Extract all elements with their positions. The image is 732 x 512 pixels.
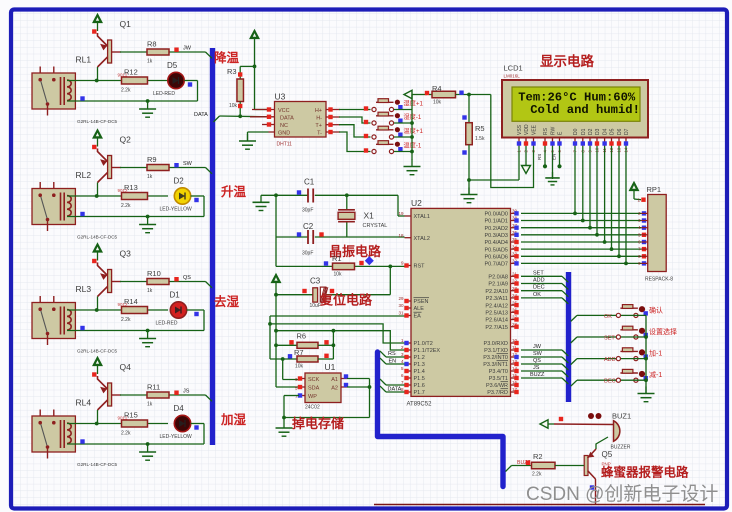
svg-text:ADD: ADD xyxy=(533,278,545,284)
svg-text:P3.7/RD: P3.7/RD xyxy=(487,390,508,396)
svg-text:VEE: VEE xyxy=(532,124,538,135)
svg-text:2.2k: 2.2k xyxy=(532,472,542,478)
svg-text:去湿: 去湿 xyxy=(214,294,240,309)
resistor R10 1k xyxy=(147,269,169,294)
svg-text:XTAL2: XTAL2 xyxy=(414,236,430,242)
transistor Q2 PNP 9012 xyxy=(98,135,132,197)
wire button 2 to rail xyxy=(394,121,414,125)
svg-text:设置选择: 设置选择 xyxy=(649,327,677,336)
power +5V arrow (U3 VCC rail) xyxy=(250,30,259,47)
LCD text line 2 xyxy=(530,103,640,117)
svg-text:D2: D2 xyxy=(174,177,185,186)
svg-text:T-: T- xyxy=(317,131,322,137)
push button 加-1 (ADD) xyxy=(616,348,662,361)
power +5V arrow (RP1) xyxy=(630,182,642,200)
resistor R8 1k xyxy=(147,40,169,65)
svg-text:升温: 升温 xyxy=(221,184,247,199)
capacitor C3 10uF electrolytic xyxy=(302,277,334,310)
svg-text:加湿: 加湿 xyxy=(220,412,247,427)
capacitor C2 30pF xyxy=(297,222,324,257)
label 升温 xyxy=(221,184,247,199)
svg-text:P2.2/A10: P2.2/A10 xyxy=(485,289,508,295)
ground (relay block RL4) xyxy=(139,445,156,460)
svg-text:DHT11: DHT11 xyxy=(277,142,293,148)
svg-text:24C02: 24C02 xyxy=(305,405,320,411)
wire SET (P2.0) to bus xyxy=(521,270,568,282)
svg-text:ALE: ALE xyxy=(414,306,425,312)
svg-text:P3.4/T0: P3.4/T0 xyxy=(489,369,508,375)
svg-text:CSDN @创新电子设计: CSDN @创新电子设计 xyxy=(526,483,718,505)
svg-text:P1.5: P1.5 xyxy=(414,376,425,382)
svg-text:P3.5/T1: P3.5/T1 xyxy=(489,376,508,382)
power +5V arrow (Q2 emitter) xyxy=(92,130,102,150)
wire DATA from bus to U3 xyxy=(214,114,269,122)
wire DEC (P2.2) to bus xyxy=(521,285,568,297)
wire DEC button to rail xyxy=(621,378,648,382)
bus main (MCU left, elbow to bottom right) xyxy=(378,352,504,487)
svg-text:P1.2: P1.2 xyxy=(414,355,425,361)
power arrow (R4 node) xyxy=(404,90,427,109)
resistor R5 1k xyxy=(462,95,485,195)
svg-text:R8: R8 xyxy=(147,40,157,49)
wire/tap P1.6 xyxy=(380,379,405,385)
svg-text:9012: 9012 xyxy=(118,415,129,420)
svg-text:RP1: RP1 xyxy=(647,185,662,194)
label 晶振电路 xyxy=(329,244,382,259)
wire DEC button to bus xyxy=(571,379,616,387)
wire button 3 to rail xyxy=(394,135,414,139)
svg-text:P2.5/A13: P2.5/A13 xyxy=(485,311,508,317)
svg-text:SCK: SCK xyxy=(308,377,320,383)
wires LCD D0-D7 to P0 bus rows xyxy=(573,146,628,265)
wire/tap RS (P1.2) xyxy=(380,351,405,357)
svg-text:湿度+1: 湿度+1 xyxy=(404,100,424,108)
LED D5 LED-RED xyxy=(153,61,184,97)
svg-text:SDA: SDA xyxy=(308,386,320,392)
svg-text:OK: OK xyxy=(604,314,612,320)
transistor Q3 PNP 9012 xyxy=(98,249,132,311)
svg-text:1k: 1k xyxy=(147,174,153,180)
svg-text:GND: GND xyxy=(278,131,290,137)
svg-text:VSS: VSS xyxy=(517,124,523,135)
wire SDA to U1 xyxy=(276,386,299,388)
LED D2 LED-YELLOW xyxy=(160,177,193,213)
ground (R5 / LCD VSS) xyxy=(461,188,478,203)
svg-text:WP: WP xyxy=(308,394,317,400)
svg-text:P3.2/INT0: P3.2/INT0 xyxy=(483,355,508,361)
label 降温 xyxy=(214,50,240,65)
svg-text:P0.7/AD7: P0.7/AD7 xyxy=(484,262,508,268)
ground (relay block RL3) xyxy=(139,332,156,347)
wire button 1 to rail xyxy=(394,109,412,111)
svg-text:D1: D1 xyxy=(170,291,181,300)
label 去湿 xyxy=(214,294,240,309)
wire LCD VEE contrast xyxy=(491,95,534,188)
wire to buzzer xyxy=(554,423,614,426)
wire LED loop to coil bottom xyxy=(67,424,204,446)
svg-text:LED-RED: LED-RED xyxy=(153,91,175,97)
wire H+ to button xyxy=(339,109,371,111)
bus right vertical xyxy=(566,272,571,402)
svg-text:1k: 1k xyxy=(147,402,153,408)
svg-text:LM016L: LM016L xyxy=(504,74,521,79)
svg-text:G2RL-14B-CF-DC5: G2RL-14B-CF-DC5 xyxy=(77,119,118,124)
svg-text:18: 18 xyxy=(398,233,404,238)
wire XTAL1 row xyxy=(261,193,405,216)
svg-text:温度-1: 温度-1 xyxy=(404,142,422,150)
wire QS (P3.3) to bus xyxy=(521,358,568,370)
svg-text:G2RL-14B-CF-DC5: G2RL-14B-CF-DC5 xyxy=(77,349,118,354)
resistor R14 2.2k xyxy=(118,297,148,323)
wire button rail xyxy=(411,110,413,161)
svg-text:蜂蜜器报警电路: 蜂蜜器报警电路 xyxy=(601,465,689,480)
svg-text:RL2: RL2 xyxy=(76,170,92,180)
svg-text:9012: 9012 xyxy=(118,72,129,77)
svg-text:30pF: 30pF xyxy=(302,251,313,257)
wire RST row xyxy=(276,237,405,268)
crystal X1 xyxy=(338,195,387,237)
wire BUZZ net to R2 xyxy=(506,460,532,472)
svg-text:2.2k: 2.2k xyxy=(121,431,131,437)
resistor R15 2.2k xyxy=(118,410,148,436)
wire ground rail (U1) xyxy=(282,416,369,420)
resistor R3 10k pull-up xyxy=(227,66,255,116)
svg-text:JS: JS xyxy=(533,365,540,371)
svg-text:P3.3/INT1: P3.3/INT1 xyxy=(483,362,508,368)
svg-text:JW: JW xyxy=(183,46,192,52)
label 复位电路 xyxy=(319,293,373,308)
wire Q2 base row xyxy=(120,168,212,174)
wire VCC rail to U3 xyxy=(253,47,269,110)
power +5V arrow (Q1 emitter) xyxy=(92,14,102,34)
svg-text:QS: QS xyxy=(533,358,541,364)
svg-text:D0: D0 xyxy=(573,128,579,135)
push button 温度-1 xyxy=(364,141,422,154)
svg-text:QS: QS xyxy=(183,275,191,281)
svg-text:LCD1: LCD1 xyxy=(504,64,523,73)
net label JW xyxy=(174,46,191,52)
svg-text:D6: D6 xyxy=(617,128,623,135)
svg-text:R11: R11 xyxy=(147,383,160,392)
power arrow (buzzer) xyxy=(540,417,563,428)
svg-text:SW: SW xyxy=(183,161,193,167)
svg-text:10k: 10k xyxy=(295,364,304,370)
svg-text:P0.4/AD4: P0.4/AD4 xyxy=(484,240,508,246)
capacitor C1 30pF xyxy=(297,178,315,214)
svg-text:9012: 9012 xyxy=(118,188,129,193)
svg-text:C3: C3 xyxy=(310,277,321,286)
resistor R7 10k xyxy=(270,331,335,370)
svg-text:R10: R10 xyxy=(147,269,161,278)
junction dots (buzzer wire) xyxy=(588,413,602,419)
svg-text:P3.1/TXD: P3.1/TXD xyxy=(484,348,508,354)
svg-text:H-: H- xyxy=(316,116,322,122)
svg-text:RW: RW xyxy=(551,126,557,135)
ground (relay block RL2) xyxy=(139,218,156,233)
svg-text:JW: JW xyxy=(533,344,542,350)
svg-text:SET: SET xyxy=(533,270,544,276)
svg-text:显示电路: 显示电路 xyxy=(540,53,594,69)
power +5V arrow (Q3 emitter) xyxy=(92,244,102,264)
svg-text:G2RL-14B-CF-DC5: G2RL-14B-CF-DC5 xyxy=(77,235,118,240)
svg-text:31: 31 xyxy=(398,311,404,316)
svg-text:1.5k: 1.5k xyxy=(475,136,485,142)
svg-text:D4: D4 xyxy=(174,404,185,413)
svg-text:P2.1/A9: P2.1/A9 xyxy=(488,282,508,288)
svg-text:P2.6/A14: P2.6/A14 xyxy=(485,318,508,324)
svg-text:NC: NC xyxy=(280,123,288,129)
svg-text:P3.0/RXD: P3.0/RXD xyxy=(484,341,508,347)
wire ADD button to bus xyxy=(571,357,616,365)
ground (crystal) xyxy=(253,195,270,210)
svg-text:29: 29 xyxy=(398,296,404,301)
svg-text:P2.3/A11: P2.3/A11 xyxy=(486,296,508,302)
wire bottom rail xyxy=(374,504,705,506)
wire U1 WP to ground rail xyxy=(284,396,299,418)
svg-text:1k: 1k xyxy=(147,288,153,294)
svg-text:BUZ1: BUZ1 xyxy=(612,412,631,421)
svg-text:P0.1/AD1: P0.1/AD1 xyxy=(484,219,508,225)
resistor R12 2.2k xyxy=(118,67,148,93)
svg-text:BUZZ: BUZZ xyxy=(530,372,545,378)
svg-text:确认: 确认 xyxy=(649,305,663,314)
svg-text:P1.6: P1.6 xyxy=(414,383,425,389)
wire LCD RW to ground xyxy=(552,146,554,179)
svg-text:10k: 10k xyxy=(433,100,442,106)
svg-text:C2: C2 xyxy=(303,222,314,231)
wire/tap EN (P1.3) xyxy=(380,358,405,365)
svg-text:RL3: RL3 xyxy=(76,284,92,294)
relay RL1 G2RL-14B-CF-DC5 xyxy=(32,55,118,125)
svg-text:LED-RED: LED-RED xyxy=(156,321,178,327)
relay RL2 G2RL-14B-CF-DC5 xyxy=(32,170,118,240)
svg-text:D1: D1 xyxy=(581,128,587,135)
push button 设置选择 (SET) xyxy=(616,326,677,339)
net label QS xyxy=(174,275,191,281)
resistor R1 10k xyxy=(324,254,374,278)
svg-text:R9: R9 xyxy=(147,155,157,164)
svg-text:D2: D2 xyxy=(588,128,594,135)
watermark CSDN xyxy=(526,483,718,505)
svg-text:DATA: DATA xyxy=(194,112,208,118)
wire pull-up vertical V2 xyxy=(274,331,278,387)
svg-text:掉电存储: 掉电存储 xyxy=(292,416,344,431)
wire LCD RS stub xyxy=(537,146,547,168)
svg-text:RS: RS xyxy=(388,351,396,357)
wire SET button to rail xyxy=(621,335,648,339)
wire SDA chain to P1.1 xyxy=(274,329,404,350)
svg-text:P0.2/AD2: P0.2/AD2 xyxy=(484,226,508,232)
ground (U1) xyxy=(276,418,293,437)
ground (U3) xyxy=(239,134,256,149)
ground (LCD RW) xyxy=(545,172,559,185)
resistor R4 10k xyxy=(425,84,491,106)
svg-text:VCC: VCC xyxy=(278,108,290,114)
svg-text:Q3: Q3 xyxy=(120,249,132,259)
svg-text:DATA: DATA xyxy=(388,387,402,393)
net label DATA (left bus) xyxy=(194,112,208,118)
svg-text:P0.3/AD3: P0.3/AD3 xyxy=(484,233,508,239)
svg-text:P1.0/T2: P1.0/T2 xyxy=(414,341,433,347)
buzzer BUZ1 xyxy=(611,412,632,451)
wire LED loop to coil bottom xyxy=(67,196,204,218)
wire OK button to rail xyxy=(621,314,646,316)
svg-text:RL4: RL4 xyxy=(76,398,92,408)
svg-text:P1.3: P1.3 xyxy=(414,362,425,368)
svg-text:P2.0/A8: P2.0/A8 xyxy=(488,275,508,281)
svg-text:2.2k: 2.2k xyxy=(121,203,131,209)
wire Q3 base row xyxy=(120,282,212,288)
transistor Q1 PNP 9012 xyxy=(98,19,132,81)
IC U3 DHT11 xyxy=(250,92,340,148)
svg-text:D3: D3 xyxy=(595,128,601,135)
power +5V arrow (reset) xyxy=(272,274,281,291)
transistor Q5 PNP xyxy=(584,449,613,479)
wire H- to button xyxy=(339,117,371,123)
svg-text:P3.6/WR: P3.6/WR xyxy=(486,383,508,389)
wire Q1 base row xyxy=(120,52,212,58)
resistor R13 2.2k xyxy=(118,183,148,209)
svg-text:RST: RST xyxy=(414,264,426,270)
svg-text:U3: U3 xyxy=(275,92,286,102)
svg-text:AT89C52: AT89C52 xyxy=(407,402,433,408)
svg-text:BUZZER: BUZZER xyxy=(611,445,631,451)
svg-text:U2: U2 xyxy=(411,198,422,208)
wire buzzer to Q5 emitter xyxy=(596,437,608,449)
svg-text:R1: R1 xyxy=(332,254,342,263)
svg-text:P1.4: P1.4 xyxy=(414,369,425,375)
wire Q5 collector to bottom rail xyxy=(590,479,596,505)
svg-text:RESPACK-8: RESPACK-8 xyxy=(645,277,673,283)
resistor R11 1k xyxy=(147,383,169,408)
LED D1 LED-RED xyxy=(156,291,187,327)
wire ADD button to rail xyxy=(621,357,648,361)
svg-text:2.2k: 2.2k xyxy=(121,88,131,94)
resistor R9 1k xyxy=(147,155,169,180)
svg-text:ADD: ADD xyxy=(604,357,616,363)
svg-text:LED-YELLOW: LED-YELLOW xyxy=(160,434,193,440)
svg-text:9012: 9012 xyxy=(118,302,129,307)
svg-text:EN: EN xyxy=(552,154,557,160)
IC U2 AT89C52 xyxy=(398,198,518,408)
svg-text:RS: RS xyxy=(537,154,542,160)
svg-text:1k: 1k xyxy=(147,59,153,65)
svg-text:Cold and humid!: Cold and humid! xyxy=(530,103,640,117)
wire coil top / LED row xyxy=(67,422,168,426)
svg-text:D5: D5 xyxy=(167,61,178,70)
net label SW xyxy=(174,161,192,167)
label 蜂蜜器报警电路 xyxy=(601,465,689,480)
wire SCL chain to P1.0 xyxy=(270,324,405,343)
wire OK button to bus xyxy=(571,314,616,322)
wire EA row xyxy=(268,316,404,359)
svg-text:降温: 降温 xyxy=(214,50,240,65)
wire LCD E stub xyxy=(552,146,562,168)
label 显示电路 xyxy=(540,53,594,69)
svg-text:P0.6/AD6: P0.6/AD6 xyxy=(484,255,508,261)
svg-text:30: 30 xyxy=(398,303,404,308)
wire U1 A1/A2 to ground rail xyxy=(347,379,371,418)
svg-text:R4: R4 xyxy=(432,84,442,93)
resistor R2 2.2k xyxy=(532,452,556,478)
bus left vertical xyxy=(210,48,215,445)
svg-text:P2.4/A12: P2.4/A12 xyxy=(485,303,508,309)
wire BUZZ (P3.5) to bus xyxy=(521,372,568,384)
svg-text:R5: R5 xyxy=(475,124,485,133)
svg-text:U1: U1 xyxy=(325,362,336,372)
svg-text:VDD: VDD xyxy=(524,124,530,135)
wire R2 to Q5 base xyxy=(555,465,584,467)
wire coil top / LED row xyxy=(67,79,168,83)
relay RL3 G2RL-14B-CF-DC5 xyxy=(32,284,118,354)
svg-text:PSEN: PSEN xyxy=(414,299,429,305)
svg-text:D5: D5 xyxy=(610,128,616,135)
svg-text:SET: SET xyxy=(604,336,615,342)
wire SCK to U1 xyxy=(283,359,299,380)
svg-text:P1.7: P1.7 xyxy=(414,390,425,396)
svg-text:G2RL-14B-CF-DC5: G2RL-14B-CF-DC5 xyxy=(77,462,118,467)
svg-text:Q1: Q1 xyxy=(120,19,132,29)
svg-text:RS: RS xyxy=(543,127,549,135)
svg-text:D4: D4 xyxy=(603,128,609,135)
net label JS xyxy=(174,389,189,395)
svg-text:T+: T+ xyxy=(315,123,322,129)
svg-text:温度+1: 温度+1 xyxy=(404,127,424,135)
svg-text:XTAL1: XTAL1 xyxy=(414,214,430,220)
power +5V arrow (Q4 emitter) xyxy=(92,357,102,377)
svg-text:H+: H+ xyxy=(315,108,322,114)
svg-text:R3: R3 xyxy=(227,67,237,76)
label 掉电存储 xyxy=(292,416,344,431)
svg-text:JS: JS xyxy=(183,389,190,395)
svg-text:Q5: Q5 xyxy=(602,450,613,459)
wire JS (P3.4) to bus xyxy=(521,365,568,377)
svg-text:P2.7/A15: P2.7/A15 xyxy=(485,325,508,331)
wire LCD VSS to ground node xyxy=(469,146,519,180)
svg-text:R6: R6 xyxy=(297,332,307,341)
svg-text:R2: R2 xyxy=(533,452,543,461)
wires P0.0-P0.7 to RP1 xyxy=(521,213,641,263)
svg-text:Q4: Q4 xyxy=(120,362,132,372)
wire LCD VDD power down-arrow xyxy=(522,146,531,174)
ground (relay block RL1) xyxy=(139,102,156,117)
svg-text:OK: OK xyxy=(533,292,541,298)
LCD LCD1 LM016L xyxy=(502,64,648,138)
svg-text:DEC: DEC xyxy=(533,285,545,291)
wire XTAL2 row xyxy=(276,195,405,237)
svg-text:SW: SW xyxy=(533,351,543,357)
resistor R6 10k xyxy=(276,332,333,349)
svg-text:X1: X1 xyxy=(364,211,375,221)
svg-text:C1: C1 xyxy=(304,178,315,187)
svg-text:EN: EN xyxy=(389,359,397,365)
svg-text:2.2k: 2.2k xyxy=(121,317,131,323)
push button 温度+1 xyxy=(364,126,424,139)
wire/tap DATA (P1.7) xyxy=(380,386,405,393)
svg-text:10k: 10k xyxy=(334,272,343,278)
wire JW (P3.1) to bus xyxy=(521,344,568,356)
svg-text:Q2: Q2 xyxy=(120,135,132,145)
svg-text:A2: A2 xyxy=(331,386,338,392)
svg-text:D7: D7 xyxy=(624,128,630,135)
svg-text:P0.5/AD5: P0.5/AD5 xyxy=(484,247,508,253)
wire LED loop to coil bottom xyxy=(67,310,204,332)
svg-text:CRYSTAL: CRYSTAL xyxy=(363,223,388,229)
svg-text:A1: A1 xyxy=(331,377,338,383)
svg-text:30pF: 30pF xyxy=(302,208,313,214)
resistor pack RP1 RESPACK-8 xyxy=(637,185,673,283)
wire T- to button xyxy=(339,132,371,152)
